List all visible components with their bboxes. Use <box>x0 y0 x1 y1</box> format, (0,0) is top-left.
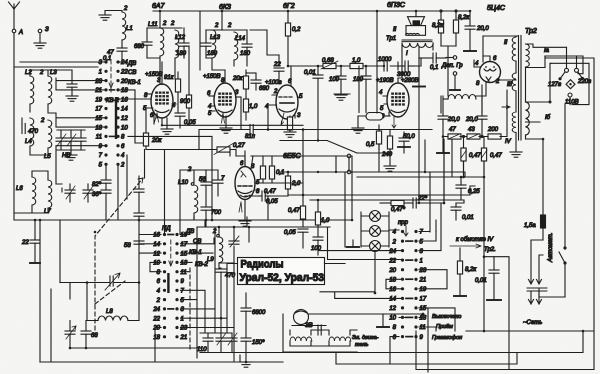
svg-text:58: 58 <box>124 243 131 249</box>
svg-text:6: 6 <box>150 113 154 119</box>
svg-text:20к: 20к <box>232 76 244 82</box>
svg-text:22: 22 <box>21 240 29 246</box>
svg-text:Граммофон: Граммофон <box>432 335 462 341</box>
chassis box bottom left <box>40 289 283 362</box>
trimmer capacitor osc a <box>65 184 75 202</box>
svg-text:680: 680 <box>259 86 270 92</box>
svg-text:21: 21 <box>94 88 102 94</box>
resistor 91к <box>164 72 181 113</box>
svg-text:к обмотке IV: к обмотке IV <box>456 237 494 243</box>
svg-text:20: 20 <box>152 326 160 332</box>
padder capacitors row <box>197 318 246 353</box>
svg-text:0,05: 0,05 <box>284 230 296 236</box>
svg-text:19: 19 <box>95 97 102 103</box>
resistor 0,2 (6Г2 plate feed) <box>285 11 301 66</box>
svg-text:680: 680 <box>134 44 145 50</box>
capacitor 47 <box>107 48 127 62</box>
svg-text:0,47: 0,47 <box>469 153 481 159</box>
svg-text:10: 10 <box>121 125 128 131</box>
svg-text:L9: L9 <box>207 257 214 263</box>
capacitor 56 <box>199 170 211 207</box>
svg-text:24: 24 <box>152 307 160 313</box>
svg-text:2: 2 <box>162 21 167 27</box>
svg-text:IV: IV <box>505 139 512 145</box>
svg-text:1,0: 1,0 <box>249 104 258 110</box>
svg-text:9: 9 <box>181 279 185 285</box>
svg-text:20,0: 20,0 <box>476 26 489 32</box>
svg-text:5: 5 <box>181 298 185 304</box>
capacitor 0,01 lower right <box>475 257 509 370</box>
wire 58 capacitor <box>124 176 144 249</box>
svg-text:220в: 220в <box>577 79 591 85</box>
svg-text:17: 17 <box>420 297 427 303</box>
svg-text:91к: 91к <box>164 75 175 81</box>
svg-text:17: 17 <box>95 107 102 113</box>
svg-text:6: 6 <box>493 56 497 62</box>
svg-text:14: 14 <box>153 242 160 248</box>
svg-text:22: 22 <box>273 62 281 68</box>
capacitor 0,01 (6Г2) <box>304 66 323 130</box>
ground under 6Е5С <box>239 221 251 226</box>
svg-text:18: 18 <box>389 277 396 283</box>
gramophone pickup ЗВ <box>292 310 423 330</box>
capacitor 0,1 (tone) <box>419 53 446 71</box>
svg-text:L2: L2 <box>25 70 32 76</box>
svg-text:+100в: +100в <box>265 80 282 86</box>
tube 6Е5С <box>235 151 263 221</box>
svg-text:2: 2 <box>123 6 128 12</box>
capacitor 22 coupling <box>273 55 284 80</box>
wire filter to winding III <box>441 90 507 130</box>
tuning gang dashed link <box>95 178 190 352</box>
wire screen feed verticals <box>184 11 377 113</box>
coil L1 <box>99 6 133 48</box>
svg-text:0,01: 0,01 <box>462 215 474 221</box>
wire right long vertical <box>464 161 485 330</box>
ground bar mid <box>334 93 350 95</box>
svg-text:16: 16 <box>153 233 160 239</box>
svg-text:23: 23 <box>180 326 188 332</box>
trimmer capacitors НВ <box>56 130 86 160</box>
svg-text:З: З <box>45 27 49 33</box>
wire 6Г2 plate row <box>250 30 421 70</box>
svg-text:15: 15 <box>420 306 427 312</box>
resistor 200 <box>487 127 501 139</box>
wire right edge vertical <box>545 56 594 331</box>
switch P2 contact field <box>152 226 208 341</box>
svg-text:100: 100 <box>311 246 322 252</box>
svg-text:Тр1: Тр1 <box>386 36 396 42</box>
antenna A <box>9 2 24 36</box>
capacitor 22* <box>404 196 444 208</box>
capacitor 3900 <box>397 61 414 78</box>
svg-text:16: 16 <box>121 97 128 103</box>
svg-text:А: А <box>18 30 23 36</box>
svg-text:Приём: Приём <box>436 324 453 330</box>
svg-text:8,2к: 8,2к <box>432 23 444 29</box>
svg-text:0,1: 0,1 <box>430 65 438 71</box>
svg-text:56: 56 <box>199 177 206 183</box>
svg-text:КВ-2: КВ-2 <box>106 98 120 104</box>
capacitor 470 osc <box>216 268 236 318</box>
svg-text:110В: 110В <box>565 100 579 106</box>
resistor 2,0 <box>285 172 301 195</box>
rectifier 5Ц4С <box>474 56 516 96</box>
svg-text:8: 8 <box>476 81 480 87</box>
svg-text:+280В: +280В <box>401 78 419 84</box>
svg-text:127в: 127в <box>548 82 561 88</box>
svg-text:1: 1 <box>181 316 184 322</box>
svg-text:2: 2 <box>39 70 44 76</box>
wire antenna down-lead <box>14 33 51 362</box>
svg-text:81п: 81п <box>245 134 256 140</box>
svg-text:10: 10 <box>389 316 396 322</box>
svg-text:16: 16 <box>389 287 396 293</box>
ground terminal З <box>34 27 49 48</box>
svg-text:3900: 3900 <box>397 72 411 78</box>
svg-text:ДВ: ДВ <box>127 61 136 67</box>
resistor 0,5 <box>366 125 382 150</box>
wire filter row <box>443 130 507 137</box>
scan noise overlay <box>0 0 1 1</box>
capacitor 91п coupling <box>245 125 256 141</box>
capacitor 20,0 (reservoir) <box>464 11 489 51</box>
svg-text:3: 3 <box>235 90 239 96</box>
svg-text:прр: прр <box>398 220 409 226</box>
svg-text:20к: 20к <box>151 138 163 144</box>
coil L3 <box>48 70 57 104</box>
wire P1 bottom drops <box>118 155 127 220</box>
svg-text:12: 12 <box>389 306 396 312</box>
resistor 0,47 (6Е5С) <box>288 195 306 227</box>
capacitor 1000 <box>378 57 392 71</box>
svg-text:7: 7 <box>181 289 185 295</box>
svg-text:5: 5 <box>420 239 424 245</box>
svg-text:6800: 6800 <box>252 310 266 316</box>
svg-text:L1: L1 <box>126 26 133 32</box>
wire L8 bottom <box>70 347 197 349</box>
svg-text:15: 15 <box>181 251 188 257</box>
resistor 1,0 mid <box>315 200 330 237</box>
svg-text:Iа: Iа <box>544 48 550 54</box>
svg-text:2: 2 <box>40 118 45 124</box>
wire misc mid verticals <box>268 66 359 220</box>
svg-text:Урал-52, Урал-53: Урал-52, Урал-53 <box>240 272 325 284</box>
svg-text:2: 2 <box>170 21 175 27</box>
wire 6П3С cathode bottom <box>280 141 404 173</box>
ground under 6К3 <box>220 128 232 133</box>
svg-text:4: 4 <box>157 289 161 295</box>
coil L8 <box>87 283 139 321</box>
svg-text:4: 4 <box>208 104 212 110</box>
wire bus row y177 <box>357 176 484 178</box>
wire band filter rows <box>30 113 106 155</box>
svg-text:2: 2 <box>156 298 161 304</box>
voltage selector <box>545 47 591 246</box>
ground T L9 right <box>248 227 250 242</box>
capacitor 0,05 (303) <box>284 229 308 248</box>
svg-text:L4: L4 <box>25 139 32 145</box>
svg-text:82*: 82* <box>92 182 102 188</box>
svg-text:4: 4 <box>475 61 479 67</box>
variable tuning capacitor <box>70 273 139 290</box>
svg-text:тель: тель <box>355 342 369 348</box>
resistor 0,47* <box>380 200 406 213</box>
filter choke <box>443 95 476 100</box>
svg-text:2: 2 <box>392 239 397 245</box>
capacitor 0,05 <box>175 113 196 128</box>
svg-text:1,0: 1,0 <box>352 58 361 64</box>
wire AVC line y125 <box>162 118 303 125</box>
IF transformer T1 <box>134 11 189 85</box>
svg-text:L3: L3 <box>50 70 57 76</box>
power transformer Тр2 <box>483 28 567 157</box>
svg-text:20,0: 20,0 <box>447 117 460 123</box>
svg-text:23: 23 <box>419 268 427 274</box>
svg-text:1,5а: 1,5а <box>524 223 536 229</box>
svg-text:0,01: 0,01 <box>475 278 487 284</box>
resistor 20к (6К3 screen) <box>232 70 249 97</box>
wire plate feeds <box>441 46 456 96</box>
barretter pill <box>352 113 390 134</box>
svg-text:0,5: 0,5 <box>366 142 375 148</box>
resistor 240 <box>381 130 393 158</box>
svg-text:8: 8 <box>393 325 397 331</box>
svg-text:4: 4 <box>121 153 125 159</box>
svg-text:21: 21 <box>419 277 427 283</box>
capacitor 0,01 right <box>451 203 474 221</box>
svg-text:6: 6 <box>121 144 125 150</box>
svg-text:0,68: 0,68 <box>322 58 334 64</box>
svg-text:5: 5 <box>99 163 103 169</box>
capacitor 100 mid <box>311 237 323 255</box>
svg-text:8: 8 <box>121 135 125 141</box>
svg-text:L13: L13 <box>210 35 221 41</box>
wire right risers <box>425 140 475 232</box>
svg-text:23: 23 <box>94 79 102 85</box>
svg-text:12: 12 <box>153 251 160 257</box>
svg-text:50,0: 50,0 <box>403 134 415 140</box>
svg-text:2: 2 <box>214 23 219 29</box>
ground T mid <box>302 248 304 250</box>
tube 6Г2 <box>265 66 303 125</box>
svg-text:ПД: ПД <box>162 226 171 232</box>
svg-text:1: 1 <box>420 258 423 264</box>
title box <box>238 258 325 285</box>
svg-text:19: 19 <box>420 287 427 293</box>
wire 6Е5С outputs <box>245 183 303 196</box>
svg-text:6: 6 <box>157 279 161 285</box>
capacitor 36* <box>92 183 111 220</box>
svg-text:180: 180 <box>353 77 364 83</box>
svg-text:180: 180 <box>176 51 187 57</box>
svg-text:Доп. Гр: Доп. Гр <box>441 63 463 69</box>
resistor 900 <box>180 46 192 125</box>
resistor 0,68 <box>321 58 338 69</box>
wire line y138 <box>128 136 212 220</box>
svg-text:14: 14 <box>389 297 396 303</box>
svg-text:2,0: 2,0 <box>291 181 301 187</box>
ground T above L9 <box>246 217 248 227</box>
svg-text:L11: L11 <box>148 22 158 28</box>
tube 6К3 <box>203 74 241 128</box>
svg-text:10: 10 <box>153 261 160 267</box>
svg-text:7: 7 <box>420 230 424 236</box>
svg-text:Радиолы: Радиолы <box>241 259 284 271</box>
coil L9 <box>207 227 234 268</box>
svg-text:12: 12 <box>121 116 128 122</box>
svg-text:7: 7 <box>221 176 225 182</box>
resistor 8,2к b <box>453 11 470 46</box>
svg-text:14: 14 <box>121 107 128 113</box>
svg-text:180: 180 <box>207 51 218 57</box>
resistor 6,2к bottom right <box>454 248 477 296</box>
capacitor 0,05 mid <box>258 191 278 205</box>
svg-text:L6: L6 <box>16 186 23 192</box>
wire P1 to 6А7 <box>118 62 157 143</box>
svg-text:18: 18 <box>153 335 160 341</box>
svg-text:200: 200 <box>487 127 499 133</box>
coil L7 <box>44 180 52 215</box>
svg-text:II: II <box>393 27 397 33</box>
svg-text:4: 4 <box>379 90 383 96</box>
svg-text:3: 3 <box>181 307 185 313</box>
svg-text:11: 11 <box>420 325 426 331</box>
svg-text:6К3: 6К3 <box>219 4 231 11</box>
svg-text:Эл. двига-: Эл. двига- <box>352 335 379 341</box>
terminals Доп Гр <box>441 56 463 90</box>
svg-text:20: 20 <box>388 268 396 274</box>
fuse 1,5а <box>524 139 546 240</box>
svg-text:0,1: 0,1 <box>276 170 284 176</box>
svg-text:6: 6 <box>393 335 397 341</box>
svg-text:6Г2: 6Г2 <box>283 3 295 10</box>
coil L6 <box>16 177 36 205</box>
capacitor 68 <box>81 321 98 349</box>
svg-text:13: 13 <box>181 261 188 267</box>
wire verticals mid <box>197 220 240 362</box>
svg-text:47: 47 <box>449 127 456 133</box>
svg-text:5: 5 <box>380 106 384 112</box>
svg-text:17: 17 <box>181 242 188 248</box>
capacitor 6800 <box>241 293 266 338</box>
svg-text:Iб: Iб <box>545 115 551 121</box>
wire antenna bottom join <box>59 220 61 283</box>
note к обмотке IV Тр2 <box>450 237 496 253</box>
wire bus row y200 <box>310 140 464 203</box>
svg-text:Выключено: Выключено <box>432 314 461 320</box>
svg-text:СВ: СВ <box>128 70 136 76</box>
ground under 6А7 <box>161 118 173 134</box>
svg-text:0,47: 0,47 <box>264 189 276 195</box>
svg-text:9: 9 <box>99 144 103 150</box>
capacitor 20,0 filter a <box>437 96 460 153</box>
ground under 6Г2 <box>284 132 296 137</box>
wire input filter top <box>14 62 106 112</box>
svg-text:150*: 150* <box>252 340 265 346</box>
IF transformer T2 <box>201 11 252 84</box>
capacitor 700 <box>201 207 222 220</box>
svg-text:0,47*: 0,47* <box>391 207 406 213</box>
wire osc section <box>194 151 230 227</box>
coil L5 <box>40 118 52 160</box>
wire bus row y220 <box>51 219 352 221</box>
switch P1 contact field <box>94 56 141 169</box>
wire lamp feeds <box>345 156 399 247</box>
svg-text:21: 21 <box>180 335 188 341</box>
coil L10 <box>178 167 218 235</box>
resistor 20к cathode <box>143 108 162 150</box>
svg-text:+150В: +150В <box>203 74 221 80</box>
capacitor 22 left <box>21 221 40 263</box>
resistor 47 <box>448 127 461 139</box>
svg-text:20,0: 20,0 <box>465 117 478 123</box>
svg-text:6П3С: 6П3С <box>387 2 406 9</box>
svg-text:8: 8 <box>157 270 161 276</box>
wire bus row y195 <box>288 194 470 196</box>
switch P3 contact field <box>388 220 462 341</box>
speaker and output transformer Тр1 <box>386 11 433 78</box>
svg-text:0,1: 0,1 <box>103 56 111 62</box>
svg-text:11: 11 <box>96 135 102 141</box>
trimmer capacitor L8 <box>65 321 76 349</box>
svg-text:5Ц4С: 5Ц4С <box>487 5 506 12</box>
wire grid line y129 <box>199 97 432 149</box>
trimmer capacitor osc b <box>83 184 93 202</box>
svg-text:100: 100 <box>329 77 340 83</box>
svg-text:1000: 1000 <box>378 57 392 63</box>
resistor 1,0 <box>350 58 363 69</box>
svg-text:13: 13 <box>95 125 102 131</box>
wire switch P3 connections <box>227 203 455 372</box>
svg-text:0,27: 0,27 <box>233 143 245 149</box>
tube 6П3С <box>376 78 419 128</box>
svg-text:1,0: 1,0 <box>321 218 330 224</box>
svg-text:68: 68 <box>91 333 98 339</box>
resistor 8,2к a <box>432 11 444 46</box>
svg-text:2: 2 <box>273 89 278 95</box>
motor windings Эл.двигатель <box>283 314 379 352</box>
svg-text:III: III <box>507 82 512 88</box>
resistor 1,0 (6К3 cathode) <box>243 97 258 120</box>
svg-text:0,01: 0,01 <box>304 70 316 76</box>
svg-text:L8: L8 <box>106 309 113 315</box>
wire bus row y172 <box>279 172 465 177</box>
capacitor 470 <box>22 118 39 135</box>
capacitor 150 <box>240 338 265 367</box>
capacitor 7 <box>213 176 225 190</box>
resistor 43 <box>467 127 480 139</box>
wire bus row y227 <box>197 226 330 228</box>
svg-text:I: I <box>406 51 408 57</box>
svg-text:~Сеть: ~Сеть <box>523 320 542 326</box>
svg-text:КВ-1: КВ-1 <box>128 80 141 86</box>
svg-text:7: 7 <box>99 153 103 159</box>
svg-text:Автомат.: Автомат. <box>548 233 554 263</box>
svg-text:9: 9 <box>420 335 424 341</box>
svg-text:0,2: 0,2 <box>292 27 301 33</box>
svg-text:15: 15 <box>95 116 102 122</box>
tube 6А7 <box>143 62 176 124</box>
capacitor 680 (6К3) <box>246 73 270 92</box>
svg-text:5: 5 <box>208 111 212 117</box>
svg-text:36*: 36* <box>92 192 102 198</box>
ground T osc <box>60 283 70 300</box>
svg-text:0,47: 0,47 <box>490 153 502 159</box>
svg-text:3: 3 <box>297 113 301 119</box>
resistor 0,1 a <box>260 156 265 183</box>
wire switch P2 connections <box>139 220 234 362</box>
